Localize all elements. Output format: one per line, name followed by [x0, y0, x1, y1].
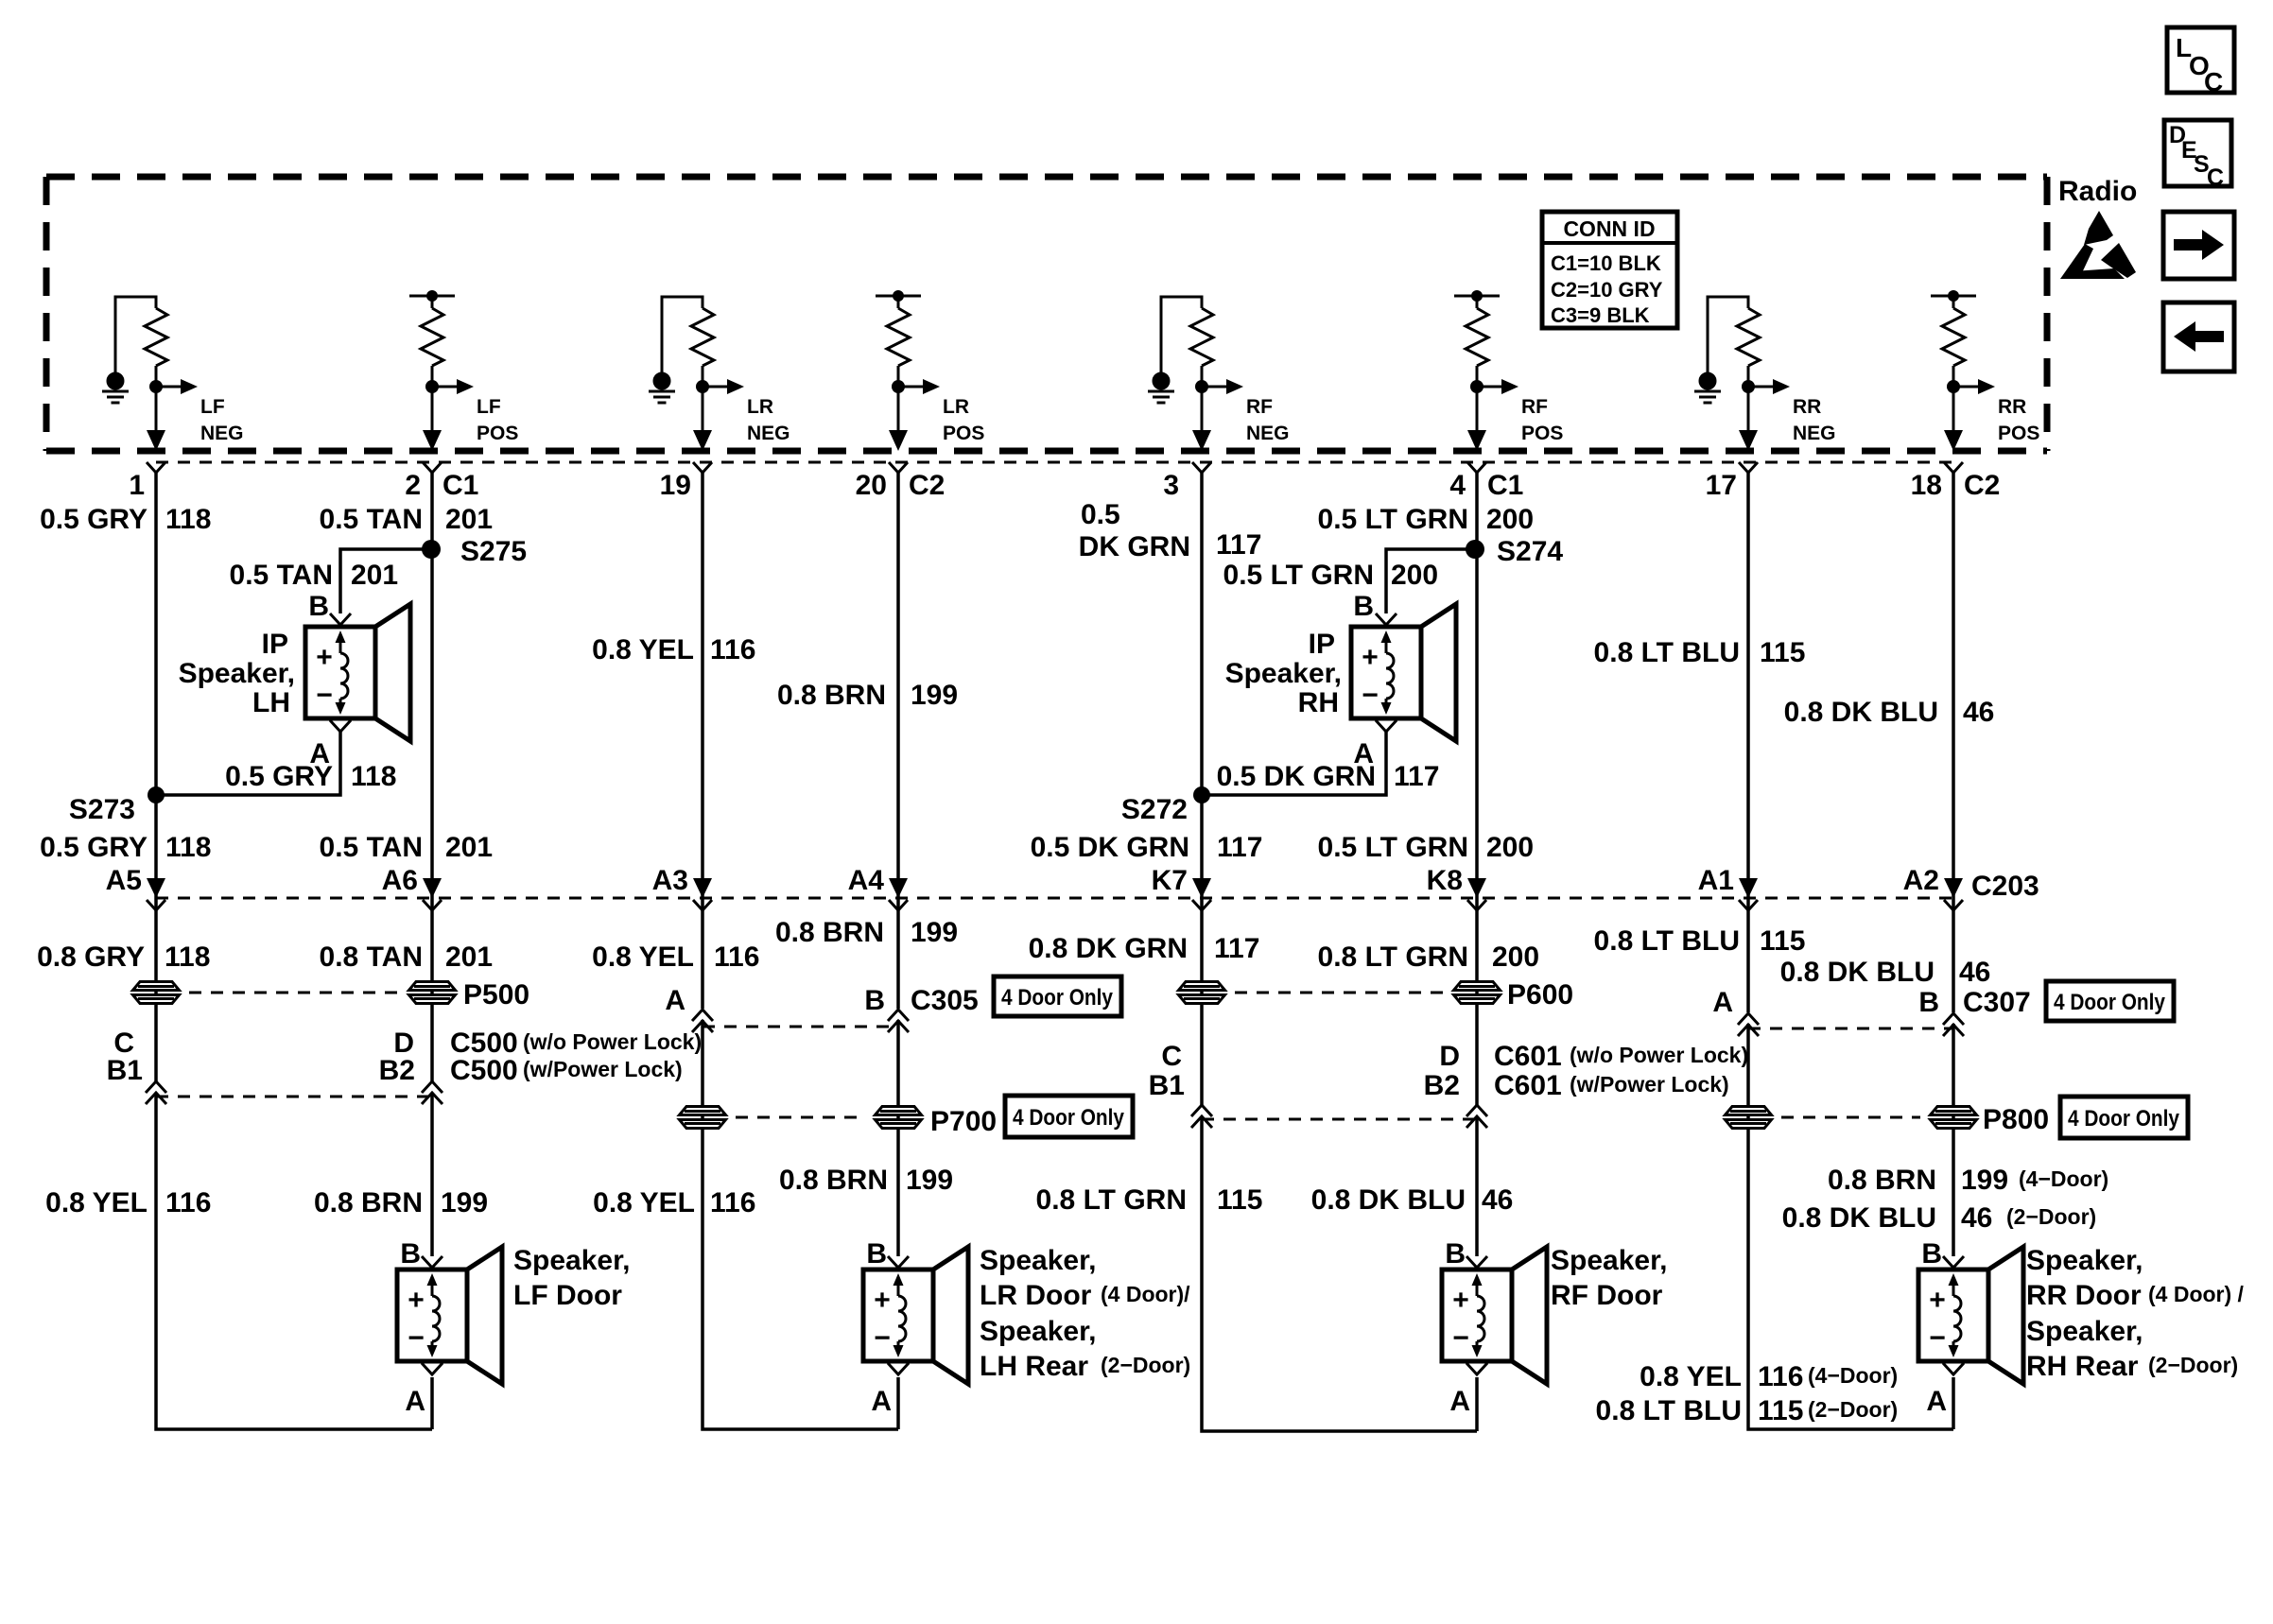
svg-text:−: − — [316, 680, 333, 711]
svg-text:B2: B2 — [379, 1055, 415, 1086]
svg-text:B: B — [864, 985, 885, 1016]
svg-text:Speaker,: Speaker, — [179, 658, 295, 689]
svg-text:199: 199 — [911, 917, 958, 948]
svg-text:0.8 BRN: 0.8 BRN — [1828, 1165, 1936, 1196]
svg-text:P500: P500 — [463, 979, 529, 1011]
P600 dashed tie line — [1235, 992, 1444, 994]
arrow stub to the right (LR NEG) — [703, 379, 744, 394]
svg-text:LF: LF — [477, 396, 501, 418]
svg-text:(2−Door): (2−Door) — [2148, 1353, 2238, 1377]
svg-text:200: 200 — [1492, 942, 1539, 973]
inline connector P600 (wire 6 half) — [1454, 982, 1501, 1004]
svg-text:(w/Power Lock): (w/Power Lock) — [523, 1057, 683, 1081]
svg-text:0.8 DK GRN: 0.8 DK GRN — [1029, 933, 1188, 964]
svg-text:Speaker,: Speaker, — [1551, 1245, 1667, 1276]
svg-text:A4: A4 — [848, 865, 885, 896]
svg-text:C2=10 GRY: C2=10 GRY — [1551, 278, 1663, 302]
note box 4 Door Only (C307) — [2046, 981, 2174, 1021]
svg-text:0.8 YEL: 0.8 YEL — [592, 942, 694, 973]
resistor R8 (RR POS radio output) — [1942, 308, 1965, 366]
junction dot (RF NEG) — [1195, 380, 1208, 393]
svg-text:C1: C1 — [1487, 470, 1523, 501]
wire branch from S274 to IP speaker RH terminal B — [1386, 549, 1475, 613]
C500 crossing carets (wire 2) — [422, 1081, 442, 1093]
svg-text:118: 118 — [165, 832, 211, 863]
svg-text:0.5 TAN: 0.5 TAN — [320, 832, 423, 863]
arrow stub to the right (RR NEG) — [1748, 379, 1790, 394]
C203 crossing arrow+caret (pin A4) — [889, 878, 908, 910]
svg-text:A6: A6 — [382, 865, 418, 896]
svg-text:Speaker,: Speaker, — [980, 1316, 1096, 1347]
svg-text:4 Door Only: 4 Door Only — [2068, 1106, 2180, 1132]
wire branch from S275 to IP speaker LH terminal B — [340, 549, 431, 613]
radio module dashed outline — [46, 177, 2047, 451]
svg-text:20: 20 — [856, 470, 887, 501]
exit arrow at radio box edge (RF NEG) — [1192, 430, 1211, 451]
wire internal lead + ground elbow (LF NEG) — [115, 297, 156, 374]
svg-text:S275: S275 — [460, 536, 527, 567]
arrow stub to the right (RF NEG) — [1202, 379, 1243, 394]
svg-text:(w/o Power Lock): (w/o Power Lock) — [1570, 1043, 1748, 1067]
svg-text:IP: IP — [262, 629, 288, 660]
wire internal top bar (RF POS) — [1454, 296, 1500, 308]
svg-text:4: 4 — [1449, 470, 1466, 501]
svg-text:IP: IP — [1309, 629, 1335, 660]
svg-text:201: 201 — [351, 560, 398, 591]
junction dot at top bar (LR POS) — [893, 290, 904, 302]
svg-text:115: 115 — [1758, 1395, 1803, 1426]
svg-text:LF Door: LF Door — [513, 1280, 622, 1311]
svg-text:199: 199 — [441, 1187, 488, 1218]
svg-text:RF: RF — [1246, 396, 1273, 418]
arrow stub to the right (RF POS) — [1477, 379, 1518, 394]
arrow stub to the right (RR POS) — [1953, 379, 1995, 394]
svg-text:NEG: NEG — [747, 423, 790, 444]
svg-text:−: − — [408, 1322, 425, 1354]
svg-text:(2−Door): (2−Door) — [1101, 1353, 1190, 1377]
svg-text:0.8 DK BLU: 0.8 DK BLU — [1311, 1184, 1466, 1216]
svg-text:D: D — [1439, 1041, 1460, 1072]
svg-text:0.8 LT GRN: 0.8 LT GRN — [1318, 942, 1468, 973]
svg-text:A1: A1 — [1698, 865, 1734, 896]
svg-text:+: + — [408, 1285, 425, 1316]
svg-text:115: 115 — [1760, 925, 1805, 957]
exit arrow at radio box edge (LF NEG) — [147, 430, 165, 451]
svg-text:CONN ID: CONN ID — [1563, 216, 1655, 241]
svg-text:RF: RF — [1521, 396, 1548, 418]
svg-text:0.8 LT BLU: 0.8 LT BLU — [1594, 637, 1740, 668]
svg-text:0.8 DK BLU: 0.8 DK BLU — [1784, 697, 1938, 728]
wire from resistor R4 to junction (LR POS) — [897, 366, 900, 432]
svg-text:(4−Door): (4−Door) — [2019, 1166, 2108, 1191]
resistor R6 (RF POS radio output) — [1466, 308, 1488, 366]
svg-text:Speaker,: Speaker, — [2026, 1316, 2143, 1347]
wire 6 (LT GRN 200, RF POS run) — [1475, 473, 1479, 1431]
svg-text:201: 201 — [445, 504, 493, 535]
svg-text:117: 117 — [1217, 832, 1262, 863]
svg-text:POS: POS — [1521, 423, 1563, 444]
svg-text:1: 1 — [129, 470, 145, 501]
svg-text:0.8 DK BLU: 0.8 DK BLU — [1782, 1202, 1936, 1234]
splice S272 — [1193, 786, 1210, 803]
C305 crossing carets (wire 3) — [692, 1010, 713, 1021]
C500 crossing carets (wire 1) — [146, 1081, 166, 1093]
svg-text:0.8 LT BLU: 0.8 LT BLU — [1596, 1395, 1742, 1426]
svg-text:B: B — [1918, 987, 1939, 1018]
C203 crossing arrow+caret (pin K8) — [1467, 878, 1486, 910]
svg-text:S274: S274 — [1497, 536, 1563, 567]
svg-text:+: + — [316, 642, 333, 673]
svg-text:0.8 YEL: 0.8 YEL — [1640, 1361, 1742, 1392]
wire internal lead + ground elbow (RF NEG) — [1161, 297, 1202, 374]
ground (radio internal, RF NEG) — [1148, 373, 1174, 403]
svg-text:118: 118 — [165, 942, 210, 973]
svg-text:LR: LR — [943, 396, 969, 418]
C203 crossing arrow+caret (pin A3) — [693, 878, 712, 910]
junction dot at top bar (LF POS) — [426, 290, 438, 302]
svg-text:P600: P600 — [1507, 979, 1573, 1011]
svg-text:Speaker,: Speaker, — [513, 1245, 630, 1276]
svg-text:−: − — [1362, 680, 1379, 711]
svg-text:0.5 GRY: 0.5 GRY — [40, 832, 147, 863]
svg-text:S273: S273 — [69, 794, 135, 825]
junction dot (LR NEG) — [696, 380, 709, 393]
svg-text:Radio: Radio — [2058, 176, 2137, 207]
svg-text:(4−Door): (4−Door) — [1808, 1363, 1898, 1388]
resistor R1 (LF NEG radio output) — [145, 308, 167, 366]
svg-text:A2: A2 — [1903, 865, 1939, 896]
P500 dashed tie line — [189, 992, 399, 994]
svg-text:A: A — [1926, 1386, 1947, 1417]
svg-text:0.8 DK BLU: 0.8 DK BLU — [1780, 957, 1935, 988]
svg-text:115: 115 — [1217, 1184, 1262, 1216]
svg-text:Speaker,: Speaker, — [1225, 658, 1342, 689]
svg-text:117: 117 — [1216, 529, 1261, 561]
arrow stub to the right (LF NEG) — [156, 379, 198, 394]
wire from resistor R6 to junction (RF POS) — [1476, 366, 1479, 432]
svg-text:DK GRN: DK GRN — [1079, 531, 1190, 562]
ESD sensitive device symbol — [2060, 211, 2136, 279]
previous-page arrow box (left arrow) — [2163, 302, 2234, 371]
svg-text:RH: RH — [1298, 687, 1339, 718]
svg-text:0.8 GRY: 0.8 GRY — [37, 942, 145, 973]
svg-text:C307: C307 — [1963, 987, 2031, 1018]
exit arrow at radio box edge (LR POS) — [889, 430, 908, 451]
svg-text:0.5 GRY: 0.5 GRY — [40, 504, 147, 535]
wire internal top bar (RR POS) — [1931, 296, 1976, 308]
junction dot (RR NEG) — [1742, 380, 1755, 393]
svg-text:0.5 TAN: 0.5 TAN — [320, 504, 423, 535]
svg-text:0.5 LT GRN: 0.5 LT GRN — [1318, 832, 1468, 863]
connector C305 dashed line — [703, 1026, 898, 1028]
resistor R3 (LR NEG radio output) — [691, 308, 714, 366]
wire 4 (BRN 199, LR POS run) — [896, 473, 900, 1429]
wire 1 (GRY 118, LF NEG run) — [156, 473, 432, 1429]
svg-text:(w/o Power Lock): (w/o Power Lock) — [523, 1029, 702, 1054]
svg-text:4 Door Only: 4 Door Only — [1013, 1105, 1125, 1131]
junction dot (RF POS) — [1470, 380, 1484, 393]
svg-text:B: B — [400, 1238, 421, 1270]
svg-text:0.5 DK GRN: 0.5 DK GRN — [1031, 832, 1189, 863]
svg-text:POS: POS — [1998, 423, 2039, 444]
svg-text:RR: RR — [1793, 396, 1821, 418]
wire internal lead + ground elbow (LR NEG) — [662, 297, 703, 374]
C203 crossing arrow+caret (pin A1) — [1739, 878, 1758, 910]
svg-text:C203: C203 — [1971, 871, 2039, 902]
svg-text:0.8 LT GRN: 0.8 LT GRN — [1036, 1184, 1187, 1216]
svg-text:RR: RR — [1998, 396, 2026, 418]
svg-text:0.8 YEL: 0.8 YEL — [45, 1187, 147, 1218]
wire from resistor R8 to junction (RR POS) — [1952, 366, 1955, 432]
connector chevron below radio box (RF POS) — [1467, 462, 1486, 473]
svg-text:4 Door Only: 4 Door Only — [1001, 985, 1114, 1011]
wire 8 (DK BLU 46, RR POS run) — [1952, 473, 1955, 1429]
svg-text:K8: K8 — [1427, 865, 1463, 896]
splice S275 — [422, 540, 441, 559]
svg-text:201: 201 — [445, 942, 493, 973]
svg-text:0.5 TAN: 0.5 TAN — [230, 560, 333, 591]
svg-text:116: 116 — [710, 634, 755, 665]
IP speaker LH (symbol) — [305, 604, 410, 741]
svg-text:POS: POS — [943, 423, 984, 444]
svg-text:C: C — [2207, 164, 2224, 191]
connector chevron below radio box (LF POS) — [423, 462, 442, 473]
LOC reference box — [2167, 27, 2234, 96]
svg-text:A: A — [1449, 1386, 1470, 1417]
svg-text:201: 201 — [445, 832, 493, 863]
splice S274 — [1466, 540, 1484, 559]
svg-text:K7: K7 — [1152, 865, 1188, 896]
svg-text:2: 2 — [405, 470, 421, 501]
IP speaker RH (symbol) — [1351, 604, 1456, 741]
C203 crossing arrow+caret (pin K7) — [1192, 878, 1211, 910]
svg-text:B: B — [1445, 1238, 1466, 1270]
note box 4 Door Only (P700) — [1005, 1096, 1133, 1137]
wire internal top bar (LR POS) — [876, 296, 921, 308]
svg-text:C2: C2 — [1964, 470, 2000, 501]
speaker LR Door / LH Rear (symbol) — [863, 1247, 968, 1384]
svg-text:C: C — [1161, 1041, 1182, 1072]
svg-text:116: 116 — [714, 942, 759, 973]
note box 4 Door Only (P800) — [2060, 1097, 2188, 1138]
svg-text:B1: B1 — [107, 1055, 143, 1086]
C203 crossing arrow+caret (pin A5) — [147, 878, 165, 910]
svg-text:S272: S272 — [1121, 794, 1188, 825]
splice S273 — [147, 786, 165, 803]
svg-text:+: + — [874, 1285, 891, 1316]
connector chevron below radio box (LF NEG) — [147, 462, 165, 473]
svg-text:(4 Door) /: (4 Door) / — [2148, 1282, 2245, 1306]
wire from resistor R5 to junction (RF NEG) — [1201, 366, 1204, 432]
svg-text:(w/Power Lock): (w/Power Lock) — [1570, 1072, 1729, 1097]
C203 crossing arrow+caret (pin A2) — [1944, 878, 1963, 910]
svg-text:0.8 YEL: 0.8 YEL — [592, 634, 694, 665]
ground (radio internal, LF NEG) — [102, 373, 129, 403]
svg-text:0.8 BRN: 0.8 BRN — [779, 1165, 888, 1196]
svg-text:A: A — [405, 1386, 425, 1417]
svg-text:117: 117 — [1394, 761, 1439, 792]
svg-text:199: 199 — [1961, 1165, 2008, 1196]
svg-text:A5: A5 — [106, 865, 142, 896]
svg-text:200: 200 — [1486, 832, 1534, 863]
svg-text:Speaker,: Speaker, — [2026, 1245, 2143, 1276]
svg-text:0.8 YEL: 0.8 YEL — [593, 1187, 695, 1218]
svg-text:46: 46 — [1959, 957, 1990, 988]
resistor R7 (RR NEG radio output) — [1737, 308, 1760, 366]
wire internal top bar (LF POS) — [409, 296, 455, 308]
inline connector P800 (wire 7 half) — [1726, 1107, 1772, 1129]
inline connector P700 (wire 4 half) — [876, 1107, 922, 1129]
connector chevron below radio box (LR NEG) — [693, 462, 712, 473]
wire from resistor R2 to junction (LF POS) — [431, 366, 434, 432]
resistor R2 (LF POS radio output) — [421, 308, 443, 366]
speaker RR Door / RH Rear (symbol) — [1918, 1247, 2023, 1384]
connector C500 dashed line — [156, 1096, 432, 1098]
svg-text:C: C — [2204, 67, 2223, 96]
C305 crossing carets (wire 4) — [888, 1010, 909, 1021]
svg-text:4 Door Only: 4 Door Only — [2054, 990, 2166, 1015]
svg-text:NEG: NEG — [1793, 423, 1836, 444]
svg-text:B: B — [866, 1238, 887, 1270]
DESC reference box — [2164, 120, 2231, 191]
svg-text:RH Rear: RH Rear — [2026, 1351, 2139, 1382]
svg-text:200: 200 — [1486, 504, 1534, 535]
svg-text:A: A — [871, 1386, 892, 1417]
svg-text:C601: C601 — [1494, 1070, 1562, 1101]
inline connector P500 (wire 1 half) — [133, 982, 180, 1004]
svg-text:199: 199 — [911, 680, 958, 711]
junction dot at top bar (RR POS) — [1948, 290, 1959, 302]
svg-text:B: B — [1921, 1238, 1942, 1270]
svg-text:C1: C1 — [442, 470, 478, 501]
svg-text:C2: C2 — [909, 470, 945, 501]
speaker LF Door (symbol) — [397, 1247, 502, 1384]
exit arrow at radio box edge (RR POS) — [1944, 430, 1963, 451]
connector chevron below radio box (LR POS) — [889, 462, 908, 473]
exit arrow at radio box edge (LR NEG) — [693, 430, 712, 451]
C307 crossing carets (wire 7) — [1738, 1013, 1759, 1025]
svg-text:−: − — [1929, 1322, 1946, 1354]
svg-text:LR Door: LR Door — [980, 1280, 1092, 1311]
resistor R4 (LR POS radio output) — [887, 308, 910, 366]
svg-text:19: 19 — [660, 470, 691, 501]
arrow stub to the right (LR POS) — [898, 379, 940, 394]
arrow stub to the right (LF POS) — [432, 379, 474, 394]
junction dot at top bar (RF POS) — [1471, 290, 1483, 302]
radio connector dashed line (C1/C2 row) — [156, 461, 1953, 464]
svg-text:−: − — [1452, 1322, 1469, 1354]
ground (radio internal, LR NEG) — [649, 373, 675, 403]
svg-text:LF: LF — [200, 396, 225, 418]
resistor R5 (RF NEG radio output) — [1190, 308, 1213, 366]
svg-text:−: − — [874, 1322, 891, 1354]
connector chevron below radio box (RF NEG) — [1192, 462, 1211, 473]
svg-text:NEG: NEG — [1246, 423, 1290, 444]
connector C203 dashed line — [156, 897, 1953, 900]
inline connector P600 (wire 5 half) — [1179, 982, 1225, 1004]
svg-text:0.8 TAN: 0.8 TAN — [320, 942, 423, 973]
wire internal lead + ground elbow (RR NEG) — [1708, 297, 1748, 374]
svg-text:+: + — [1452, 1285, 1469, 1316]
wire 2 (TAN 201, LF POS run) — [430, 473, 434, 1429]
svg-text:LH: LH — [252, 687, 290, 718]
svg-text:Speaker,: Speaker, — [980, 1245, 1096, 1276]
svg-text:46: 46 — [1961, 1202, 1992, 1234]
svg-text:A: A — [665, 985, 685, 1016]
svg-text:C1=10 BLK: C1=10 BLK — [1551, 251, 1661, 275]
junction dot (LF POS) — [425, 380, 439, 393]
svg-text:C3=9 BLK: C3=9 BLK — [1551, 303, 1650, 327]
speaker RF Door (symbol) — [1442, 1247, 1547, 1384]
svg-text:117: 117 — [1214, 933, 1259, 964]
svg-text:P800: P800 — [1983, 1104, 2049, 1135]
svg-text:C601: C601 — [1494, 1041, 1562, 1072]
svg-text:115: 115 — [1760, 637, 1805, 668]
svg-text:+: + — [1362, 642, 1379, 673]
exit arrow at radio box edge (LF POS) — [423, 430, 442, 451]
svg-text:0.8 BRN: 0.8 BRN — [314, 1187, 423, 1218]
junction dot (RR POS) — [1947, 380, 1960, 393]
C203 crossing arrow+caret (pin A6) — [423, 878, 442, 910]
inline connector P800 (wire 8 half) — [1931, 1107, 1977, 1129]
C601 crossing carets (wire 6) — [1466, 1105, 1487, 1116]
svg-text:POS: POS — [477, 423, 518, 444]
wire from resistor R3 to junction (LR NEG) — [702, 366, 704, 432]
svg-text:0.5 LT GRN: 0.5 LT GRN — [1223, 560, 1374, 591]
svg-text:118: 118 — [165, 504, 211, 535]
next-page arrow box (right arrow) — [2163, 212, 2234, 279]
svg-text:B1: B1 — [1149, 1070, 1185, 1101]
connector C601 dashed line — [1202, 1118, 1477, 1121]
wire from resistor R1 to junction (LF NEG) — [155, 366, 158, 432]
svg-text:116: 116 — [1758, 1361, 1803, 1392]
wire 7 (LT BLU 115, RR NEG run) — [1748, 473, 1953, 1429]
svg-text:0.8 BRN: 0.8 BRN — [775, 917, 884, 948]
svg-text:17: 17 — [1706, 470, 1737, 501]
inline connector P700 (wire 3 half) — [680, 1107, 726, 1129]
svg-text:46: 46 — [1482, 1184, 1513, 1216]
P800 dashed tie line — [1781, 1116, 1920, 1119]
connector chevron below radio box (RR POS) — [1944, 462, 1963, 473]
svg-text:LH Rear: LH Rear — [980, 1351, 1088, 1382]
svg-text:RR Door: RR Door — [2026, 1280, 2142, 1311]
C601 crossing carets (wire 5) — [1191, 1105, 1212, 1116]
svg-text:B2: B2 — [1424, 1070, 1460, 1101]
wire 3 (YEL 116, LR NEG run) — [703, 473, 898, 1429]
svg-text:0.5 DK GRN: 0.5 DK GRN — [1217, 761, 1376, 792]
P700 dashed tie line — [736, 1116, 865, 1119]
svg-text:P700: P700 — [930, 1106, 997, 1137]
CONN ID table — [1542, 212, 1677, 328]
connector chevron below radio box (RR NEG) — [1739, 462, 1758, 473]
svg-text:116: 116 — [710, 1187, 755, 1218]
inline connector P500 (wire 2 half) — [409, 982, 456, 1004]
svg-text:RF Door: RF Door — [1551, 1280, 1663, 1311]
svg-text:3: 3 — [1163, 470, 1179, 501]
svg-text:0.8 LT BLU: 0.8 LT BLU — [1594, 925, 1740, 957]
exit arrow at radio box edge (RR NEG) — [1739, 430, 1758, 451]
svg-text:NEG: NEG — [200, 423, 244, 444]
svg-text:B: B — [1353, 591, 1374, 622]
svg-text:46: 46 — [1963, 697, 1994, 728]
svg-text:116: 116 — [165, 1187, 211, 1218]
svg-text:C500: C500 — [450, 1055, 518, 1086]
C307 crossing carets (wire 8) — [1943, 1013, 1964, 1025]
svg-text:A3: A3 — [652, 865, 688, 896]
svg-text:18: 18 — [1911, 470, 1942, 501]
svg-text:C305: C305 — [911, 985, 979, 1016]
junction dot (LF NEG) — [149, 380, 163, 393]
